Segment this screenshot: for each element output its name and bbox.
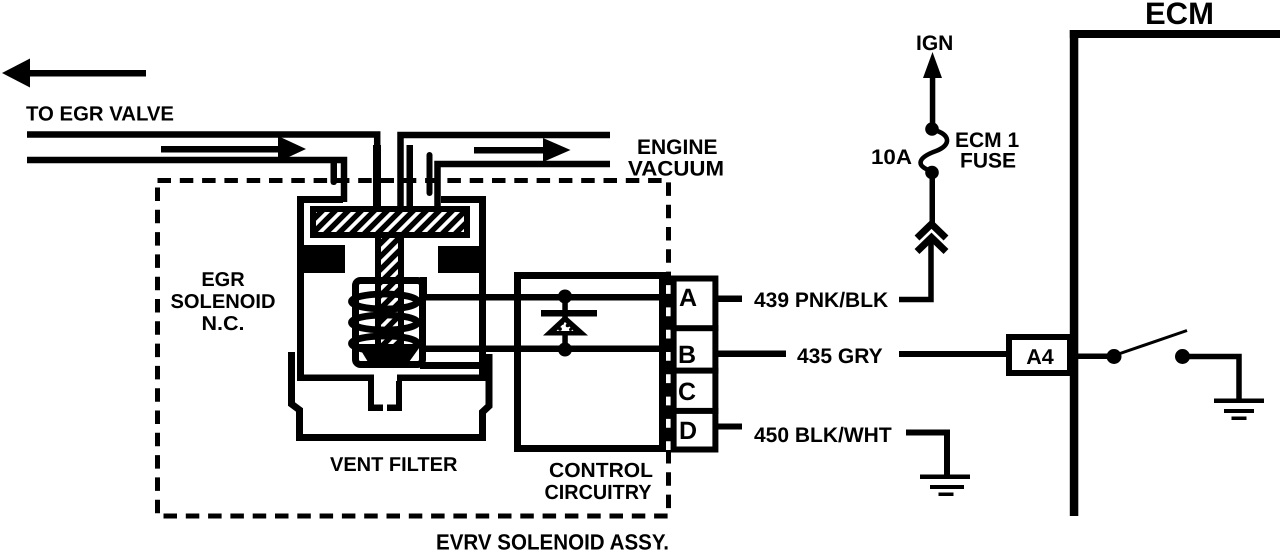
wire: EGR pipe bottom line <box>27 160 344 202</box>
wire: engine vacuum pipe top line <box>401 135 611 206</box>
wire coil to terminal A <box>420 294 670 301</box>
arrow to EGR valve <box>2 59 146 88</box>
ECM boundary <box>1070 30 1280 516</box>
wire fuse to IGN arrow <box>930 66 936 126</box>
connector chevrons C100 <box>917 224 946 252</box>
svg-text:435 GRY: 435 GRY <box>797 345 883 368</box>
pole piece left <box>300 245 345 273</box>
solenoid case <box>297 196 486 381</box>
ground (switch) <box>1214 399 1264 421</box>
svg-text:N.C.: N.C. <box>202 313 245 335</box>
armature plate (hatched bar) <box>313 209 467 235</box>
stub terminal B <box>718 351 786 358</box>
wire chevron to fuse <box>930 178 936 223</box>
coil L1 outline <box>356 281 423 365</box>
svg-text:VACUUM: VACUUM <box>628 158 724 181</box>
svg-text:EGR: EGR <box>201 269 245 291</box>
svg-text:ENGINE: ENGINE <box>637 136 718 159</box>
svg-text:SOLENOID: SOLENOID <box>171 291 276 313</box>
svg-text:EVRV SOLENOID ASSY.: EVRV SOLENOID ASSY. <box>436 530 669 552</box>
connector terminal A <box>671 284 719 331</box>
vent tube left wall <box>373 145 381 208</box>
control circuitry box <box>518 276 663 449</box>
svg-text:B: B <box>678 341 696 369</box>
terminal A4 <box>1009 337 1070 373</box>
wire 450 BLK/WHT to ground <box>906 433 947 476</box>
svg-text:FUSE: FUSE <box>960 150 1016 173</box>
wire 435 GRY to A4 <box>899 351 1009 357</box>
svg-text:VENT FILTER: VENT FILTER <box>330 454 458 476</box>
svg-text:C: C <box>678 378 696 406</box>
flow arrow in vacuum pipe <box>474 138 571 162</box>
case vent notch <box>368 381 402 411</box>
svg-text:IGN: IGN <box>916 32 953 55</box>
wire switch to ground <box>1189 357 1239 400</box>
wire: engine vacuum pipe bottom line <box>438 164 611 206</box>
vent tube right wall <box>407 145 414 208</box>
connector terminal B <box>671 341 719 374</box>
svg-text:ECM: ECM <box>1145 0 1214 31</box>
dashed box EVRV solenoid assembly <box>158 181 669 517</box>
stub terminal D <box>718 424 742 430</box>
stub terminal A <box>718 296 742 303</box>
svg-text:D: D <box>679 417 697 445</box>
svg-text:10A: 10A <box>871 146 912 169</box>
EGR port inner wall <box>331 160 338 185</box>
wire coil to terminal B <box>420 346 670 353</box>
coil turns <box>352 294 418 351</box>
ground (450 BLK/WHT) <box>920 475 970 497</box>
connector shell <box>674 279 716 450</box>
wire A4 to switch <box>1077 354 1108 360</box>
switch (ECM driver) <box>1107 331 1191 365</box>
svg-text:CONTROL: CONTROL <box>549 459 653 482</box>
pole piece right <box>438 246 486 273</box>
svg-text:CIRCUITRY: CIRCUITRY <box>545 481 652 504</box>
vent filter bracket <box>292 352 490 438</box>
svg-text:A: A <box>679 284 697 312</box>
svg-text:450 BLK/WHT: 450 BLK/WHT <box>754 424 892 447</box>
wire coil bottom to case wall <box>420 362 482 369</box>
svg-text:TO EGR VALVE: TO EGR VALVE <box>26 103 174 126</box>
flow arrow in EGR pipe <box>161 136 306 162</box>
connector terminal C <box>671 378 719 414</box>
plunger (hatched column) <box>375 238 404 348</box>
wire 439 elbow to fuse <box>899 242 931 300</box>
vacuum port inner wall <box>427 152 433 196</box>
svg-text:A4: A4 <box>1026 345 1054 369</box>
diode CR1 <box>541 290 597 357</box>
wire: EGR pipe top line <box>27 135 377 197</box>
coil bottom block <box>357 344 422 362</box>
svg-text:439 PNK/BLK: 439 PNK/BLK <box>754 289 888 312</box>
fuse ECM 1 10A <box>921 122 947 179</box>
